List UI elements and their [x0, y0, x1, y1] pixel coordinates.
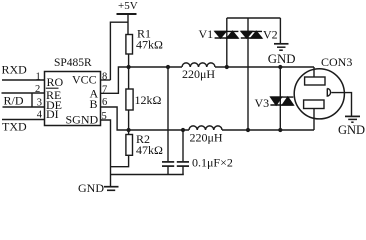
svg-text:12kΩ: 12kΩ: [135, 93, 162, 107]
svg-text:V3: V3: [255, 96, 270, 110]
svg-text:220μH: 220μH: [182, 67, 215, 81]
svg-text:220μH: 220μH: [190, 131, 223, 145]
svg-text:6: 6: [102, 97, 107, 108]
svg-text:4: 4: [37, 109, 43, 120]
svg-text:DI: DI: [46, 107, 59, 121]
svg-text:2: 2: [35, 84, 40, 95]
svg-text:47kΩ: 47kΩ: [136, 143, 163, 157]
svg-text:3: 3: [37, 97, 42, 108]
svg-text:GND: GND: [338, 123, 365, 137]
svg-text:VCC: VCC: [72, 72, 97, 86]
svg-text:RXD: RXD: [2, 63, 28, 77]
svg-text:+5V: +5V: [118, 0, 138, 12]
svg-text:8: 8: [102, 71, 107, 82]
svg-text:GND: GND: [268, 52, 296, 66]
svg-text:SGND: SGND: [66, 113, 99, 127]
svg-text:47kΩ: 47kΩ: [136, 38, 163, 52]
svg-text:0.1μF×2: 0.1μF×2: [192, 156, 233, 170]
svg-text:V1: V1: [199, 27, 214, 41]
svg-text:V2: V2: [263, 27, 278, 41]
svg-text:B: B: [90, 97, 98, 111]
svg-text:1: 1: [36, 71, 41, 82]
svg-text:7: 7: [102, 84, 107, 95]
svg-text:CON3: CON3: [321, 55, 352, 69]
svg-text:GND: GND: [78, 181, 104, 195]
svg-text:SP485R: SP485R: [54, 57, 92, 69]
svg-text:RO: RO: [47, 75, 64, 89]
svg-text:5: 5: [102, 111, 107, 122]
svg-text:R/D: R/D: [4, 94, 24, 108]
svg-text:TXD: TXD: [2, 120, 27, 134]
